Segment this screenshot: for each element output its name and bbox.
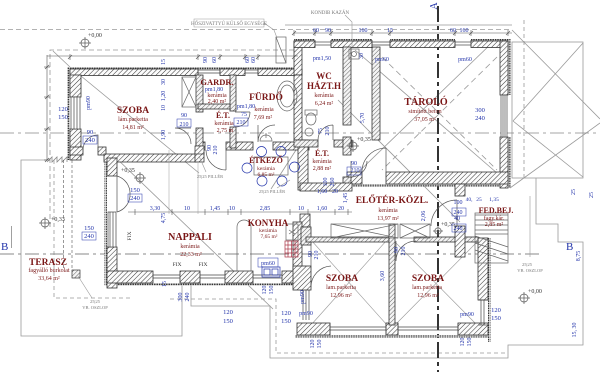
svg-text:8,75: 8,75 [576, 251, 582, 262]
svg-text:+0,35: +0,35 [357, 137, 371, 143]
svg-text:A: A [429, 2, 440, 10]
WC west wall lower [294, 75, 302, 140]
fed.bej steps [475, 213, 508, 263]
svg-text:VB. OSZLOP: VB. OSZLOP [517, 268, 543, 273]
svg-text:+0,00: +0,00 [88, 33, 102, 39]
svg-text:simított beton: simított beton [408, 109, 441, 115]
wardrobe row 2 [400, 224, 430, 238]
terrace outline [21, 160, 182, 336]
svg-text:22,33 m²: 22,33 m² [180, 252, 202, 258]
section line B [0, 253, 543, 255]
svg-text:120: 120 [460, 338, 466, 347]
svg-text:B: B [1, 241, 8, 253]
svg-text:lám.parketta: lám.parketta [118, 117, 148, 123]
svg-text:240: 240 [454, 226, 463, 232]
kazán [349, 49, 359, 59]
chairs [257, 147, 267, 157]
ET-fürdő door [235, 112, 250, 127]
svg-text:HÁZT.H: HÁZT.H [307, 81, 341, 91]
svg-text:6,24 m²: 6,24 m² [315, 101, 334, 107]
svg-text:150: 150 [281, 318, 291, 325]
svg-text:260: 260 [330, 178, 336, 187]
nappali west wall [107, 158, 117, 176]
window W1 [71, 97, 80, 129]
svg-text:1,60: 1,60 [317, 206, 328, 212]
svg-text:150: 150 [269, 286, 275, 295]
svg-text:33,64 m²: 33,64 m² [38, 276, 60, 282]
svg-text:300: 300 [475, 107, 485, 114]
ET288 east door [351, 161, 367, 177]
svg-text:90: 90 [325, 28, 331, 34]
svg-text:210: 210 [213, 146, 219, 155]
svg-text:1,90: 1,90 [161, 130, 167, 141]
bedroom2 cross diagonals [395, 242, 477, 325]
wall between bedrooms [389, 224, 395, 325]
hip line 1 [513, 43, 583, 121]
bedroom east wall [478, 238, 488, 300]
W wall [70, 75, 81, 97]
hip line 3 [512, 30, 600, 119]
WC door [318, 125, 333, 140]
svg-text:90: 90 [181, 113, 187, 119]
S wall taroló strip [347, 172, 362, 184]
svg-text:pm60: pm60 [375, 57, 389, 63]
svg-text:210: 210 [351, 168, 360, 174]
nappali south wall segments [180, 271, 200, 283]
svg-text:20: 20 [338, 206, 344, 212]
svg-text:VB. OSZLOP: VB. OSZLOP [82, 305, 108, 310]
svg-text:TERASZ: TERASZ [29, 258, 67, 268]
svg-text:+0,35: +0,35 [121, 168, 135, 174]
insulation strip north-east wall [294, 39, 315, 42]
bedroom2 north wall [414, 237, 478, 242]
svg-text:40: 40 [454, 216, 460, 222]
eave dashed north [0, 29, 512, 31]
svg-text:90: 90 [394, 247, 400, 253]
heat pump leader [264, 23, 277, 38]
section line A vertical [437, 6, 439, 372]
svg-text:120: 120 [223, 309, 233, 316]
insulation strip nappali west [105, 154, 108, 285]
svg-text:25: 25 [571, 189, 577, 195]
fürdő west wall [230, 75, 236, 111]
svg-text:40,: 40, [466, 197, 474, 203]
wardrobe row 1 [331, 224, 398, 238]
svg-text:pm1,50: pm1,50 [313, 56, 331, 62]
bedroom south wall [297, 323, 330, 335]
dashed X in taroló [382, 57, 497, 170]
svg-text:SZOBA: SZOBA [117, 106, 149, 116]
svg-text:100: 100 [323, 178, 329, 187]
svg-text:7,65 m²: 7,65 m² [261, 234, 278, 240]
svg-text:pm60: pm60 [458, 57, 472, 63]
wall pillar [195, 146, 204, 154]
svg-text:pm90: pm90 [460, 312, 474, 318]
svg-text:fagy.kár.: fagy.kár. [484, 215, 505, 222]
svg-text:90: 90 [351, 161, 357, 167]
svg-text:FIX: FIX [173, 262, 182, 268]
svg-text:15: 15 [387, 28, 393, 34]
hip line 4 [510, 123, 600, 188]
taroló door [362, 148, 386, 172]
window N4 [455, 40, 471, 47]
N wall west part [70, 69, 198, 76]
svg-text:37,05 m²: 37,05 m² [414, 117, 436, 123]
svg-text:1,20: 1,20 [161, 91, 167, 102]
insulation strip east wall [508, 39, 511, 95]
svg-text:+0,00: +0,00 [528, 289, 542, 295]
dim line left side [46, 55, 48, 160]
svg-text:30: 30 [359, 53, 365, 59]
step vertical [294, 41, 302, 75]
svg-text:NAPPALI: NAPPALI [168, 232, 212, 243]
bathtub [277, 81, 297, 111]
svg-text:25: 25 [476, 197, 482, 203]
svg-text:210: 210 [237, 120, 246, 126]
svg-text:25: 25 [589, 192, 595, 198]
svg-text:2,88 m²: 2,88 m² [313, 166, 332, 172]
ridge dashed line [0, 132, 600, 134]
dim line top-left block [47, 55, 298, 57]
ET288 south wall [300, 183, 352, 191]
svg-text:2,40 m²: 2,40 m² [208, 99, 227, 105]
gardr/ET wall [198, 104, 230, 109]
svg-text:1,45: 1,45 [210, 206, 221, 212]
svg-text:150: 150 [317, 340, 323, 349]
gardr west wall [196, 75, 203, 112]
toilet [306, 113, 316, 125]
svg-text:10: 10 [229, 206, 235, 212]
svg-text:15, 30: 15, 30 [572, 323, 578, 338]
svg-text:KONYHA: KONYHA [248, 218, 289, 228]
svg-text:240: 240 [84, 233, 94, 240]
terrace column lines [63, 160, 65, 270]
svg-text:240: 240 [85, 137, 95, 144]
svg-text:B: B [566, 241, 573, 253]
dashed right [523, 20, 525, 178]
dining table [254, 157, 288, 175]
south eave outline [191, 178, 583, 358]
insulation strip north-west wall [68, 67, 303, 70]
WC south wall [294, 140, 318, 147]
svg-text:kerámia: kerámia [378, 208, 398, 214]
window N3b [372, 40, 390, 47]
svg-text:25|25: 25|25 [522, 262, 533, 267]
svg-text:pm90: pm90 [300, 290, 306, 304]
svg-text:6,85 m²: 6,85 m² [258, 172, 275, 178]
svg-text:pm60: pm60 [261, 261, 275, 267]
svg-text:TÁROLÓ: TÁROLÓ [404, 96, 448, 108]
bedroom1 door [311, 245, 331, 287]
svg-text:kerámia: kerámia [214, 121, 234, 127]
eave solid top right [285, 24, 512, 26]
svg-text:3,30: 3,30 [150, 206, 161, 212]
pillar leader 1 [199, 156, 206, 172]
svg-text:SZOBA: SZOBA [326, 274, 358, 284]
svg-text:15: 15 [162, 281, 168, 287]
diag nappali [114, 156, 273, 309]
taroló west wall [372, 47, 380, 140]
window N3 [315, 40, 331, 47]
E wall taroló [500, 41, 508, 95]
bedroom1 cross diagonals [311, 240, 387, 325]
svg-text:13,97 m²: 13,97 m² [377, 216, 399, 222]
diag leader szoba1 [81, 76, 199, 173]
svg-text:GARDR.: GARDR. [200, 77, 233, 87]
bedroom1 north wall [306, 237, 389, 242]
svg-text:kerámia: kerámia [180, 244, 200, 250]
svg-text:60: 60 [313, 28, 319, 34]
svg-text:pm90: pm90 [299, 311, 313, 317]
insulation strip step [294, 39, 297, 69]
svg-text:SZOBA: SZOBA [412, 274, 444, 284]
svg-text:75: 75 [318, 128, 324, 134]
svg-text:12,96 m²: 12,96 m² [330, 293, 352, 299]
terrace pillar [72, 270, 80, 278]
svg-text:75: 75 [241, 112, 247, 118]
hip line 2 [513, 121, 583, 177]
mid wall szoba1 south [70, 147, 83, 155]
kitchen counter [286, 224, 298, 240]
dim line top-right block [294, 32, 512, 34]
svg-text:210: 210 [314, 251, 320, 260]
bedroom2 door [396, 241, 416, 261]
svg-text:100: 100 [454, 200, 463, 206]
gardr door [175, 128, 191, 144]
fürdő door [258, 125, 275, 142]
elevation marker symbols [79, 37, 91, 49]
svg-text:150: 150 [58, 114, 68, 121]
svg-text:25|25 PILLÉR: 25|25 PILLÉR [197, 174, 223, 179]
insulation strip bedroom east [488, 238, 491, 342]
svg-text:kerámia: kerámia [314, 93, 334, 99]
svg-text:5,70: 5,70 [360, 113, 366, 124]
svg-text:ÉTKEZŐ: ÉTKEZŐ [249, 155, 283, 165]
eave dashed left block [50, 50, 294, 228]
svg-text:120: 120 [491, 307, 501, 314]
valley over hall [338, 100, 460, 222]
nappali-ET door [206, 150, 226, 170]
sink [262, 267, 280, 277]
svg-text:240: 240 [185, 293, 191, 302]
szoba1 wardrobe [182, 77, 196, 107]
heat pump [276, 37, 286, 63]
svg-text:10: 10 [298, 206, 304, 212]
svg-text:KONDIB KAZÁN: KONDIB KAZÁN [311, 10, 350, 16]
szoba1 door [83, 135, 98, 150]
svg-text:3,60: 3,60 [380, 271, 386, 282]
N wall east part [294, 41, 315, 48]
svg-text:fagyálló burkolat: fagyálló burkolat [28, 267, 69, 274]
svg-text:12,96 m²: 12,96 m² [417, 293, 439, 299]
terrace dashes [54, 160, 130, 298]
svg-text:2,06: 2,06 [421, 211, 427, 222]
diag etkezo [271, 150, 296, 189]
svg-text:15: 15 [161, 59, 167, 65]
svg-text:pm1,80: pm1,80 [237, 104, 255, 110]
svg-text:2,85: 2,85 [260, 206, 271, 212]
svg-text:210: 210 [401, 247, 407, 256]
WC east wall [343, 47, 351, 125]
svg-text:300: 300 [178, 293, 184, 302]
dashed eave south [170, 299, 508, 353]
svg-text:60: 60 [212, 57, 218, 63]
svg-text:É.T.: É.T. [216, 110, 230, 120]
nappali west window [108, 212, 116, 247]
insulation strip west wall [68, 67, 71, 160]
svg-text:150: 150 [491, 315, 501, 322]
svg-text:2,75 m: 2,75 m [217, 128, 234, 134]
svg-text:+0,33: +0,33 [51, 217, 65, 223]
nappali south windows [153, 275, 180, 278]
svg-text:120: 120 [310, 340, 316, 349]
svg-text:25|25: 25|25 [90, 299, 101, 304]
svg-text:120: 120 [262, 286, 268, 295]
svg-text:HŐSZIVATTYÚ KÜLSŐ EGYSÉGE: HŐSZIVATTYÚ KÜLSŐ EGYSÉGE [191, 21, 267, 27]
bedroom1 west window [303, 290, 309, 320]
svg-text:30: 30 [161, 79, 167, 85]
svg-text:210: 210 [325, 127, 331, 136]
svg-text:lam.parketta: lam.parketta [326, 285, 356, 291]
svg-text:FED.BEJ.: FED.BEJ. [479, 206, 514, 215]
svg-text:14,81 m²: 14,81 m² [122, 125, 144, 131]
insulation strip bedroom south [295, 335, 488, 338]
hall east wall [455, 184, 465, 196]
window E taroló [501, 95, 507, 137]
svg-text:10: 10 [161, 105, 167, 111]
svg-text:7,69 m²: 7,69 m² [254, 115, 273, 121]
french door nappali west [117, 176, 130, 212]
svg-text:WC: WC [316, 71, 332, 81]
insulation strip nappali south [105, 283, 310, 286]
insulation strip taroló south [347, 184, 508, 187]
svg-text:FIX: FIX [127, 232, 133, 241]
taroló solid diagonals [355, 50, 505, 180]
front door [431, 200, 457, 226]
kazan leader [345, 15, 352, 46]
svg-text:240: 240 [475, 115, 485, 122]
window N2 [245, 68, 258, 75]
washbasin [260, 135, 272, 141]
svg-text:120: 120 [58, 106, 68, 113]
svg-text:60: 60 [251, 57, 257, 63]
svg-text:90: 90 [87, 129, 94, 136]
kitchen/bedroom west wall [298, 140, 308, 190]
svg-text:1,35: 1,35 [489, 197, 499, 203]
svg-text:90: 90 [203, 57, 209, 63]
svg-text:lam.parketta: lam.parketta [412, 285, 442, 291]
svg-text:pm90: pm90 [86, 96, 92, 110]
svg-text:150: 150 [84, 225, 94, 232]
dim line nappali row [128, 211, 352, 213]
urinal [305, 128, 313, 136]
mid wall füdő/ET south [196, 142, 205, 150]
svg-text:kerámia: kerámia [254, 107, 274, 113]
bedroom2 east window [478, 300, 488, 325]
bedroom1 south window [330, 323, 386, 335]
svg-text:25|25 PILLÉR: 25|25 PILLÉR [259, 189, 285, 194]
svg-text:160: 160 [460, 28, 469, 34]
svg-text:150: 150 [467, 338, 473, 347]
svg-text:2,85 m²: 2,85 m² [485, 222, 504, 228]
east annex roof rect [512, 42, 583, 178]
svg-text:160: 160 [359, 28, 368, 34]
svg-text:60: 60 [450, 28, 456, 34]
svg-text:É.T.: É.T. [315, 148, 329, 158]
svg-text:FIX: FIX [199, 262, 208, 268]
svg-text:20: 20 [332, 189, 338, 195]
fridge [237, 220, 251, 271]
oszlop leader [78, 276, 92, 298]
svg-text:150: 150 [130, 187, 140, 194]
svg-text:150: 150 [223, 318, 233, 325]
svg-text:10: 10 [184, 206, 190, 212]
svg-text:4,75: 4,75 [161, 213, 167, 224]
svg-text:120: 120 [281, 310, 291, 317]
svg-text:240: 240 [130, 195, 140, 202]
svg-text:kerámia: kerámia [312, 159, 332, 165]
svg-text:1,45: 1,45 [343, 193, 349, 204]
pillar leader 2 [277, 180, 290, 188]
bedroom2 south window [398, 323, 458, 335]
window N1 [198, 68, 220, 75]
svg-text:1,60: 1,60 [317, 189, 328, 195]
